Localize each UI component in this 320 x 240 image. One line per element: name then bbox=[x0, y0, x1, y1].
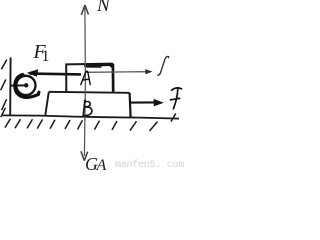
wall bbox=[9, 58, 11, 115]
label GA bbox=[85, 154, 98, 175]
ground hatch 3 bbox=[27, 119, 33, 128]
ground hatch 7 bbox=[78, 120, 83, 129]
label N bbox=[97, 0, 110, 17]
rope wrap around pulley bbox=[15, 75, 39, 98]
block B right edge bbox=[130, 93, 131, 118]
arrowhead F (right) bbox=[154, 99, 164, 107]
label GA subscript A bbox=[97, 157, 107, 175]
ground hatch 2 bbox=[15, 119, 21, 128]
arrowhead f (right) bbox=[145, 69, 152, 74]
friction f line bbox=[86, 71, 148, 74]
ground hatch 12 (crosses line end) bbox=[171, 113, 176, 121]
ground hatch 5 bbox=[50, 120, 55, 129]
ground hatch 10 bbox=[130, 121, 137, 130]
vertical force line (N up / GA down) bbox=[84, 8, 85, 156]
label F1 subscript 1 bbox=[42, 48, 50, 66]
handwritten letter F (applied force label) bbox=[170, 88, 181, 109]
ground line bbox=[3, 115, 180, 118]
rope from pulley to block A bbox=[30, 72, 82, 75]
block B bbox=[45, 92, 129, 116]
handwritten letter A (block A label) bbox=[81, 71, 90, 84]
ground hatch 1 bbox=[5, 119, 11, 128]
block A heavy secondary stroke bbox=[85, 66, 102, 68]
ground hatch 9 bbox=[112, 121, 117, 130]
block A right edge (heavy) bbox=[112, 64, 115, 92]
label f (friction) hand path bbox=[158, 56, 169, 75]
arrowhead GA (down) bbox=[81, 151, 88, 160]
ground hatch 11 bbox=[150, 122, 158, 131]
pulley wheel bbox=[16, 76, 35, 95]
applied force F arrow on block B bbox=[131, 101, 156, 103]
arrowhead N (up) bbox=[81, 5, 88, 15]
ground hatch 8 bbox=[95, 121, 100, 130]
block A bbox=[66, 64, 113, 92]
wall hatch 3 bbox=[2, 99, 7, 110]
handwritten letter B (block B label) bbox=[83, 100, 92, 115]
wall hatch 4 (near ground) bbox=[1, 108, 6, 117]
block A top-right corner blob bbox=[110, 63, 114, 67]
label F1 bbox=[34, 41, 46, 64]
pulley hub dot bbox=[24, 83, 28, 87]
wall hatch 1 bbox=[1, 60, 6, 70]
watermark bbox=[115, 160, 184, 171]
rope tension arrowhead (F1 direction, pointing left) bbox=[27, 69, 39, 76]
pulley axle bbox=[11, 84, 26, 86]
ground hatch 4 bbox=[37, 119, 42, 128]
wall hatch 2 bbox=[1, 80, 6, 91]
block A heavy top edge segment bbox=[84, 63, 112, 66]
ground hatch 6 bbox=[65, 120, 70, 129]
